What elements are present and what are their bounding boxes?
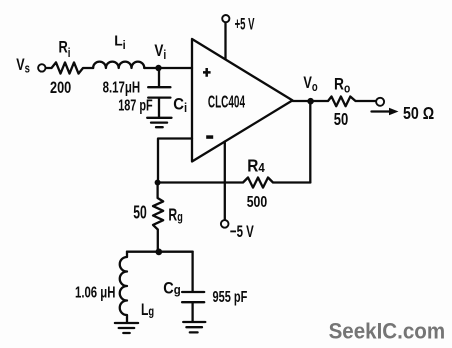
node A junction dot: [155, 180, 161, 186]
node Vo junction dot: [307, 98, 314, 105]
svg-text:500: 500: [247, 194, 268, 211]
wire Cg to ground: [191, 303, 193, 321]
svg-text:+5 V: +5 V: [235, 15, 255, 34]
capacitor Ci top plate: [148, 86, 170, 88]
svg-text:1.06 μH: 1.06 μH: [75, 285, 115, 302]
svg-text:50 Ω: 50 Ω: [403, 103, 434, 123]
inductor Li: [93, 62, 144, 68]
wire -5V supply stem: [224, 142, 226, 220]
wire bottom node to Lg and Cg: [127, 251, 193, 253]
svg-text:50: 50: [133, 203, 147, 223]
ground below Ci: [147, 118, 171, 127]
wire inverting input: [158, 139, 192, 180]
resistor Rg vertical zigzag: [153, 183, 163, 252]
svg-text:200: 200: [50, 78, 71, 97]
wire output with resistor Ro zigzag: [293, 97, 376, 107]
op-amp U1 triangle: [192, 39, 293, 162]
wire node Vi to op-amp: [144, 67, 192, 69]
capacitor Cg top plate: [182, 291, 204, 293]
svg-text:CLC404: CLC404: [208, 92, 245, 112]
wire +5V supply stem: [224, 22, 226, 58]
node B junction dot: [155, 249, 162, 256]
terminal +5V circle: [222, 15, 229, 22]
wire Ci to ground: [158, 99, 160, 117]
capacitor Cg bottom plate: [182, 301, 204, 303]
wire down to capacitor Cg: [191, 252, 193, 291]
wire Vi down to capacitor Ci: [158, 68, 160, 86]
op-amp minus sign: [206, 135, 213, 139]
wire node A to R4 and resistor R4 zigzag: [158, 178, 311, 188]
svg-text:Cg: Cg: [163, 280, 180, 298]
svg-text:8.17μH: 8.17μH: [103, 80, 141, 97]
node Vi junction dot: [155, 65, 161, 71]
wire input with resistor Ri zigzag: [46, 62, 93, 73]
arrowhead: [389, 108, 399, 115]
ground below Cg: [183, 322, 205, 332]
capacitor Ci bottom plate: [148, 96, 170, 98]
terminal Vs circle: [38, 64, 45, 71]
wire R4 up to output node: [309, 101, 311, 182]
svg-text:187 pF: 187 pF: [118, 98, 153, 115]
op-amp plus sign: [203, 68, 211, 77]
arrow to 50 ohm load: [372, 110, 391, 112]
terminal output circle: [376, 98, 384, 106]
svg-text:50: 50: [334, 109, 349, 129]
svg-text:SeekIC.com: SeekIC.com: [329, 318, 446, 343]
svg-text:−5 V: −5 V: [230, 222, 254, 241]
terminal -5V circle: [221, 220, 229, 228]
inductor Lg: [120, 252, 127, 322]
svg-text:955 pF: 955 pF: [213, 289, 248, 306]
ground below Lg: [115, 323, 138, 333]
